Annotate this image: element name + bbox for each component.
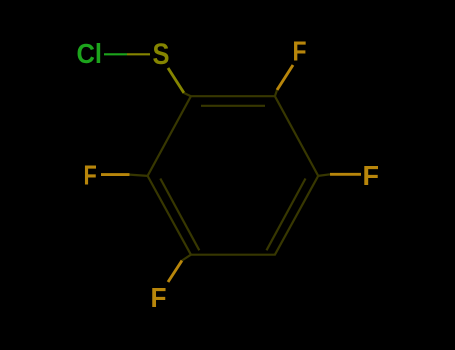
bond S-C1 (carbon half)	[184, 93, 191, 96]
bond S-C1 (sulfur half)	[168, 68, 184, 93]
double bond inner line (lower-right edge)	[267, 179, 306, 251]
svg-text:F: F	[293, 36, 307, 67]
bond C3-F (fluorine half, right)	[330, 173, 361, 176]
benzene ring	[148, 96, 319, 255]
svg-text:F: F	[84, 160, 97, 191]
bond C2-F (fluorine half, top right)	[277, 65, 293, 90]
svg-text:F: F	[363, 160, 380, 191]
bond C6-F (fluorine half, left)	[101, 173, 130, 176]
svg-text:S: S	[153, 38, 170, 71]
bond Cl-S (sulfur half)	[127, 53, 150, 55]
svg-text:Cl: Cl	[77, 38, 103, 69]
bond C6-F (carbon half, left)	[130, 175, 148, 176]
double bond inner line (lower-left edge)	[160, 179, 199, 251]
bond C5-F (fluorine half, bottom)	[168, 261, 182, 283]
bond C2-F (carbon half, top right)	[275, 90, 277, 96]
double bond inner line (top edge)	[201, 105, 265, 107]
bond Cl-S (green half)	[104, 53, 127, 55]
bond C3-F (carbon half, right)	[318, 174, 330, 176]
bond C5-F (carbon half, bottom)	[182, 255, 191, 261]
svg-text:F: F	[151, 282, 167, 313]
